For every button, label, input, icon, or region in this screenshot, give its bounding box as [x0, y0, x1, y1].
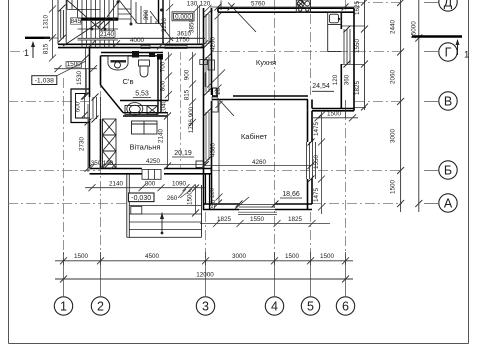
cabinet bottom wall (axis А)	[203, 204, 312, 210]
sink in kitchen corner	[328, 13, 342, 52]
svg-text:800: 800	[145, 181, 156, 188]
svg-text:1040: 1040	[161, 100, 168, 115]
extension line axis6 to 1500 dim	[344, 100, 346, 118]
svg-text:1550: 1550	[250, 216, 265, 223]
oval tub below bathroom	[125, 103, 158, 117]
kitchen top wall (axis Д)	[212, 8, 355, 12]
hall centerline dash	[180, 52, 182, 168]
hatched square fixture	[147, 106, 158, 115]
sofa in living room	[132, 121, 158, 134]
kitchen area 24,54	[312, 83, 334, 91]
svg-text:20,19: 20,19	[174, 150, 192, 157]
elevation box -0,030	[129, 193, 155, 202]
svg-text:4260: 4260	[252, 159, 267, 166]
staircase upper right flight	[118, 0, 173, 41]
cabinet area 18,66	[280, 191, 302, 198]
svg-text:4250: 4250	[146, 158, 161, 165]
svg-text:6: 6	[342, 300, 349, 314]
svg-text:2060: 2060	[390, 70, 397, 85]
svg-text:1310: 1310	[43, 15, 50, 30]
axis line В horizontal	[8, 101, 402, 103]
left bay	[71, 89, 90, 123]
stair block left wall with window	[58, 0, 66, 44]
axis grid dash-dot lines	[8, 0, 402, 262]
cabinet right wall (axis 5)	[308, 111, 313, 210]
radiator boxes on axis-3 wall	[200, 60, 218, 113]
dimension 600 in bay	[75, 93, 89, 119]
grid circle Г	[439, 43, 457, 61]
dimension line 2290 landing	[166, 0, 211, 44]
washbasin in bathroom	[108, 56, 128, 70]
svg-text:260: 260	[167, 195, 178, 202]
svg-text:5,53: 5,53	[135, 91, 149, 98]
kitchen door swing top	[221, 1, 256, 33]
svg-text:1090: 1090	[172, 181, 187, 188]
bathroom chamfer wall	[101, 85, 124, 113]
porch right wall	[206, 174, 223, 210]
bottom dimension row 1500/4500/3000/1500/1500	[55, 252, 353, 265]
dimension 4250 living room	[105, 158, 210, 168]
axis line Б horizontal	[8, 170, 402, 172]
solid extension lines to grid circles	[64, 3, 439, 297]
axis line А horizontal	[8, 203, 402, 205]
svg-text:Кабінет: Кабінет	[241, 132, 268, 141]
svg-text:130: 130	[187, 1, 198, 8]
grid circle 4	[265, 297, 283, 315]
svg-text:800: 800	[160, 80, 167, 91]
svg-text:-0,030: -0,030	[131, 195, 151, 202]
svg-text:4380: 4380	[210, 143, 217, 158]
svg-text:-1,038: -1,038	[35, 78, 54, 85]
grid circle 5	[301, 297, 319, 315]
grid circle Д	[439, 0, 457, 11]
svg-text:1530: 1530	[76, 71, 83, 86]
svg-text:1500: 1500	[187, 191, 194, 206]
far left dimension column 1310/815	[44, 0, 58, 62]
vent boxes above wall	[141, 46, 187, 49]
dimension 5760 top	[210, 1, 360, 11]
axis line 5 vertical	[310, 14, 312, 262]
elevation box -1,038	[32, 61, 86, 85]
svg-text:1500: 1500	[285, 253, 300, 260]
svg-text:900: 900	[184, 69, 191, 80]
svg-text:1825: 1825	[354, 81, 361, 96]
hall area 20,19	[172, 150, 194, 157]
flue block with cross hatch	[103, 119, 117, 168]
svg-text:0,000: 0,000	[175, 13, 191, 20]
svg-text:1475: 1475	[313, 122, 320, 137]
small dims 350 120 at wall base	[89, 160, 116, 170]
axis line 6 vertical	[345, 0, 347, 262]
interior wall axis 3	[204, 8, 212, 210]
window strips in axis-3 wall	[204, 11, 211, 164]
left exterior wall	[90, 48, 101, 168]
svg-text:24,54: 24,54	[312, 83, 330, 90]
toilet in bathroom	[139, 60, 150, 77]
svg-text:1825: 1825	[217, 216, 232, 223]
svg-text:700: 700	[160, 61, 167, 72]
svg-text:2140: 2140	[109, 181, 124, 188]
svg-text:1: 1	[24, 48, 29, 58]
svg-text:1550: 1550	[354, 39, 361, 54]
porch entry arrow	[160, 213, 164, 235]
landing label 2140 box	[100, 31, 116, 38]
stair hall bottom wall (axis Г)	[58, 44, 204, 47]
kitchen door swing bottom	[205, 70, 225, 88]
dimension row 4000 / 1750	[88, 37, 208, 50]
small steps at living room exit	[142, 170, 161, 180]
section mark 1 left	[24, 38, 50, 58]
right dimension column 2440/2060/3000/1500	[397, 0, 404, 212]
svg-text:2140: 2140	[100, 31, 115, 38]
svg-text:1500: 1500	[320, 253, 335, 260]
bathroom top wall inner face	[101, 53, 163, 56]
svg-text:2: 2	[97, 300, 104, 314]
window dimension column right wall 1625/1550/1825	[341, 0, 368, 111]
svg-text:600: 600	[75, 101, 82, 112]
grid circle Б	[439, 161, 457, 179]
porch dimension row 2140/800/1090	[85, 184, 205, 191]
window in right wall	[344, 26, 351, 68]
dimension 260 with leaders	[167, 189, 192, 202]
svg-text:120: 120	[103, 160, 114, 167]
staircase middle rail	[81, 17, 118, 20]
svg-text:1750: 1750	[175, 37, 190, 44]
svg-text:1500: 1500	[74, 253, 89, 260]
wall jog right of cabinet	[308, 100, 355, 111]
axis line 3 vertical	[205, 212, 207, 262]
svg-text:2730: 2730	[79, 137, 86, 152]
elevation box 0,000	[172, 12, 194, 21]
dimension 4380 line cabinet	[216, 101, 223, 204]
right dimension column 15000	[415, 0, 422, 212]
svg-text:3000: 3000	[232, 253, 247, 260]
wall between kitchen and cabinet (axis В)	[212, 96, 308, 100]
svg-text:360: 360	[344, 74, 351, 85]
svg-text:Б: Б	[444, 164, 452, 178]
window in cabinet bottom wall	[236, 201, 279, 210]
hall dim column 700/800	[165, 52, 172, 101]
svg-text:1550: 1550	[313, 155, 320, 170]
dimension 4260 line kitchen	[215, 13, 222, 96]
svg-text:4: 4	[271, 300, 278, 314]
grid circle В	[439, 92, 457, 110]
svg-text:5760: 5760	[251, 1, 266, 8]
svg-text:В: В	[444, 95, 452, 109]
svg-text:2440: 2440	[390, 20, 397, 35]
axis line Г horizontal	[10, 51, 402, 53]
sill lines below bottom wall	[238, 212, 277, 214]
svg-text:1500: 1500	[390, 180, 397, 195]
dimension column 1475/1550/1475	[318, 110, 325, 214]
sill box near living corner	[196, 161, 204, 168]
section mark 1 top right	[412, 37, 469, 61]
grid circle 2	[91, 297, 109, 315]
axis line Д horizontal	[355, 2, 402, 4]
svg-text:А: А	[444, 197, 453, 211]
door jamb kitchen bottom	[213, 88, 217, 96]
dimension 1500 wall jog	[311, 111, 358, 122]
staircase left block treads	[67, 0, 205, 48]
svg-text:5: 5	[307, 300, 314, 314]
staircase direction line with break	[63, 0, 120, 46]
svg-text:1825: 1825	[288, 216, 303, 223]
svg-text:815: 815	[184, 89, 191, 100]
porch outline and steps	[127, 174, 202, 237]
grid circle 3	[196, 297, 214, 315]
svg-text:1475: 1475	[313, 188, 320, 203]
dimension 2730 rotated	[79, 104, 92, 172]
svg-text:Д: Д	[444, 0, 453, 10]
svg-text:4500: 4500	[145, 253, 160, 260]
svg-text:С'в: С'в	[123, 77, 134, 86]
svg-text:1: 1	[60, 300, 67, 314]
svg-text:3: 3	[202, 300, 209, 314]
bathroom area 5,53	[133, 91, 151, 98]
svg-text:Г: Г	[445, 46, 452, 60]
svg-text:1500: 1500	[327, 111, 342, 118]
bathroom right wall	[158, 56, 161, 113]
svg-text:Вітальня: Вітальня	[129, 143, 160, 152]
dimension row 3610	[120, 30, 205, 38]
svg-text:250: 250	[210, 199, 217, 210]
axis line 1 vertical	[63, 78, 65, 262]
axis line 4 vertical	[274, 0, 276, 262]
window in cabinet right wall	[307, 139, 316, 183]
svg-text:815: 815	[43, 43, 50, 54]
svg-text:120: 120	[200, 1, 211, 8]
living room bottom wall	[90, 169, 213, 174]
svg-text:1796,900: 1796,900	[188, 106, 195, 133]
dimension 4260 cabinet	[201, 159, 315, 169]
axis line 2 vertical	[100, 55, 102, 262]
bottom window dimension row 1825/1550/1825	[200, 220, 330, 227]
door swing В wall into cabinet	[218, 95, 249, 209]
svg-text:2290: 2290	[161, 18, 168, 33]
porch small square	[131, 207, 142, 215]
svg-text:390: 390	[143, 9, 150, 20]
grid circle 1	[54, 297, 72, 315]
svg-text:4000: 4000	[130, 37, 145, 44]
stove in kitchen top	[296, 0, 310, 13]
svg-text:845: 845	[71, 18, 82, 25]
porch dim 1500 rotated	[187, 185, 200, 217]
svg-text:1625: 1625	[354, 1, 361, 16]
svg-text:18,66: 18,66	[282, 191, 300, 198]
right exterior wall (axis 6)	[341, 8, 354, 111]
svg-text:4260: 4260	[210, 37, 217, 52]
dimension 1500 left bay offset	[54, 61, 97, 95]
dimension 1530 rotated	[76, 48, 89, 100]
grid circle 6	[336, 297, 354, 315]
grid circle А	[439, 194, 457, 212]
hall dim column 900/815	[189, 52, 196, 130]
svg-text:12000: 12000	[196, 272, 214, 279]
stair hall right wall	[159, 0, 164, 44]
window in left wall	[90, 94, 101, 123]
door blocks on bathroom wall	[132, 51, 163, 60]
svg-text:120: 120	[332, 74, 339, 85]
svg-text:3000: 3000	[390, 129, 397, 144]
living room dim 2140 rotated	[158, 112, 172, 170]
svg-text:Кухня: Кухня	[256, 58, 276, 67]
svg-text:2140: 2140	[158, 129, 165, 144]
bottom dimension row 12000	[55, 276, 353, 283]
svg-text:120: 120	[209, 187, 216, 198]
dimension 845 rotated	[71, 18, 82, 25]
bathroom bottom wall	[120, 101, 168, 117]
svg-text:1: 1	[464, 50, 469, 61]
